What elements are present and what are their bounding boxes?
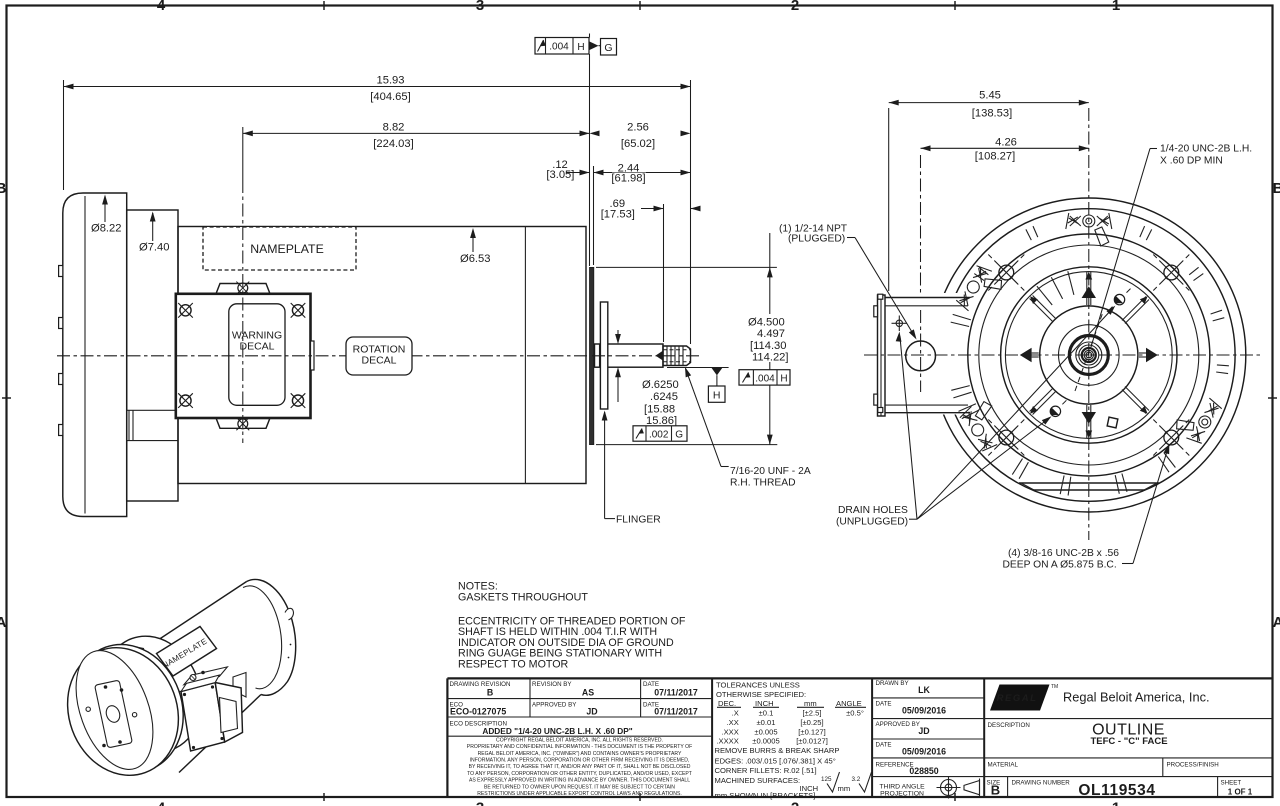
dia .6250/.6245 [15.88/15.86] text and FCF runout .002 G	[633, 379, 687, 441]
svg-text:.6245: .6245	[650, 391, 678, 403]
fan cover outer circles	[932, 198, 1246, 512]
svg-text:OL119534: OL119534	[1078, 782, 1155, 799]
svg-text:GASKETS THROUGHOUT: GASKETS THROUGHOUT	[458, 591, 588, 603]
direction triangles N S E W	[1020, 286, 1158, 424]
svg-text:B: B	[0, 180, 7, 197]
svg-text:mm SHOWN IN [BRACKETS]: mm SHOWN IN [BRACKETS]	[715, 791, 816, 800]
svg-text:ADDED "1/4-20 UNC-2B L.H. X .6: ADDED "1/4-20 UNC-2B L.H. X .60 DP"	[482, 726, 632, 736]
bottom chord flats	[1019, 483, 1159, 490]
dimension 8.82 [224.03]	[243, 121, 590, 150]
svg-text:PROCESS/FINISH: PROCESS/FINISH	[1167, 762, 1219, 769]
svg-text:1/4-20 UNC-2B L.H.: 1/4-20 UNC-2B L.H.	[1160, 144, 1252, 155]
fan guard spokes	[1030, 271, 1149, 438]
svg-text:3: 3	[476, 800, 484, 806]
svg-text:MACHINED SURFACES:: MACHINED SURFACES:	[715, 776, 801, 785]
svg-text:OTHERWISE SPECIFIED:: OTHERWISE SPECIFIED:	[716, 690, 806, 699]
svg-text:X .60 DP MIN: X .60 DP MIN	[1160, 155, 1223, 166]
svg-text:Ø6.53: Ø6.53	[460, 253, 490, 265]
1/4-20 tap leader and label	[1091, 144, 1252, 347]
svg-text:FLINGER: FLINGER	[616, 514, 661, 525]
svg-text:1: 1	[1112, 0, 1120, 14]
svg-text:mm: mm	[804, 699, 817, 708]
svg-text:APPROVED BY: APPROVED BY	[876, 721, 920, 728]
svg-text:±0.01: ±0.01	[757, 718, 776, 727]
mounting tap holes (4) 3/8-16	[988, 255, 1024, 291]
svg-text:[±0.25]: [±0.25]	[800, 718, 823, 727]
dia 6.53 label	[460, 228, 490, 265]
svg-text:(4) 3/8-16 UNC-2B x .56: (4) 3/8-16 UNC-2B x .56	[1008, 548, 1119, 559]
svg-text:Ø.6250: Ø.6250	[642, 379, 679, 391]
short ribs upper-left	[1068, 271, 1074, 295]
svg-text:REGAL BELOIT AMERICA, INC. ("O: REGAL BELOIT AMERICA, INC. ("OWNER") AND…	[478, 751, 682, 757]
svg-text:DRAWN BY: DRAWN BY	[876, 680, 909, 687]
conduit box (side view)	[57, 180, 592, 443]
svg-text:BE RETURNED TO OWNER UPON REQU: BE RETURNED TO OWNER UPON REQUEST. IT MA…	[484, 784, 675, 790]
hub plate circle	[1059, 325, 1120, 386]
svg-text:[108.27]: [108.27]	[975, 151, 1015, 163]
isometric nameplate decal	[157, 627, 217, 677]
svg-text:4: 4	[157, 0, 166, 14]
rim vent slots	[951, 226, 1229, 495]
flange mounting nubs	[59, 266, 63, 436]
svg-text:BY RECEIVING IT, TO AGREE THAT: BY RECEIVING IT, TO AGREE THAT IT, AND/O…	[469, 764, 691, 770]
dia 4.500/4.497 dimension line	[747, 233, 797, 445]
C-face pilot plate	[590, 267, 594, 444]
svg-text:114.22]: 114.22]	[752, 351, 789, 363]
isometric mid step ellipse	[87, 622, 218, 766]
svg-text:7/16-20 UNF - 2A: 7/16-20 UNF - 2A	[730, 466, 811, 477]
spoke tip wedges	[1030, 272, 1148, 438]
3/8-16 leader and label	[1002, 443, 1172, 571]
svg-text:A: A	[1273, 614, 1280, 631]
svg-text:.XX: .XX	[727, 718, 739, 727]
extension lines	[64, 34, 691, 345]
svg-text:.XXX: .XXX	[721, 728, 738, 737]
svg-text:RESPECT TO MOTOR: RESPECT TO MOTOR	[458, 659, 569, 671]
svg-text:4.26: 4.26	[995, 137, 1017, 149]
hub circles	[1069, 336, 1108, 375]
svg-text:DATE: DATE	[876, 701, 892, 708]
svg-text:[61.98]: [61.98]	[611, 172, 645, 184]
svg-text:[15.88: [15.88	[644, 404, 675, 416]
svg-text:G: G	[604, 42, 612, 54]
svg-text:RESTRICTIONS UNDER APPLICABLE: RESTRICTIONS UNDER APPLICABLE EXPORT CON…	[477, 791, 682, 797]
svg-text:DESCRIPTION: DESCRIPTION	[988, 722, 1030, 729]
svg-text:Ø8.22: Ø8.22	[91, 223, 121, 235]
tolerance block text	[715, 681, 864, 801]
svg-text:H: H	[713, 390, 721, 402]
dimension 5.45 [138.53]	[889, 90, 1089, 291]
svg-text:AS EXPRESSLY APPROVED IN WRITI: AS EXPRESSLY APPROVED IN WRITING IN ADVA…	[469, 778, 690, 784]
svg-text:DATE: DATE	[876, 742, 892, 749]
svg-text:A: A	[0, 614, 7, 631]
shaft threaded end 7/16-20	[656, 346, 691, 366]
svg-text:.004: .004	[549, 42, 569, 53]
svg-text:B: B	[487, 688, 493, 698]
svg-text:(PLUGGED): (PLUGGED)	[788, 234, 845, 245]
conduit box front view	[864, 108, 1263, 540]
svg-text:[138.53]: [138.53]	[972, 107, 1012, 119]
svg-text:REVISION BY: REVISION BY	[532, 681, 572, 688]
mid section (dia 7.40)	[127, 210, 178, 501]
cover clamp details	[955, 213, 1223, 453]
svg-text:±0.1: ±0.1	[759, 709, 774, 718]
dimension 4.26 [108.27]	[921, 137, 1089, 309]
isometric flange rear rim ellipse	[55, 629, 201, 788]
dia .6250 dimension arrows	[615, 330, 621, 402]
svg-text:DEC.: DEC.	[718, 699, 736, 708]
svg-text:COPYRIGHT REGAL BELOIT AMERICA: COPYRIGHT REGAL BELOIT AMERICA, INC. ALL…	[496, 737, 663, 743]
svg-text:1 OF 1: 1 OF 1	[1228, 788, 1253, 797]
svg-text:[114.30: [114.30	[750, 340, 787, 352]
svg-text:2.56: 2.56	[627, 121, 649, 133]
svg-text:THIRD ANGLE: THIRD ANGLE	[879, 783, 925, 790]
left section grid	[447, 698, 712, 700]
svg-text:REGAL: REGAL	[997, 693, 1038, 704]
svg-text:4.497: 4.497	[757, 328, 785, 340]
right section labels	[876, 680, 1242, 786]
svg-text:TEFC - "C" FACE: TEFC - "C" FACE	[1090, 736, 1167, 747]
svg-text:[±0.127]: [±0.127]	[798, 728, 825, 737]
svg-text:07/11/2017: 07/11/2017	[654, 688, 698, 698]
conduit box (front view) white mask	[876, 293, 963, 415]
isometric flange face ellipse	[61, 640, 167, 780]
svg-text:APPROVED BY: APPROVED BY	[532, 702, 576, 709]
svg-text:[3.05]: [3.05]	[546, 169, 574, 181]
svg-text:±0.005: ±0.005	[754, 728, 777, 737]
isometric conduit box neck	[172, 667, 227, 692]
svg-text:DECAL: DECAL	[361, 355, 396, 367]
svg-text:ECO-0127075: ECO-0127075	[450, 707, 506, 717]
title block outer lines	[447, 677, 1271, 679]
svg-text:028850: 028850	[909, 766, 938, 776]
svg-text:JD: JD	[918, 726, 929, 736]
dimension .69 [17.53]	[601, 198, 701, 220]
svg-text:PROJECTION: PROJECTION	[880, 791, 924, 798]
feature control frame runout .004 H with datum G at top	[535, 38, 617, 56]
motor body (dia 6.53)	[178, 227, 586, 484]
dimension 2.56 [65.02]	[590, 121, 691, 149]
svg-text:±0.5°: ±0.5°	[846, 709, 864, 718]
shaft	[595, 344, 664, 367]
svg-text:[404.65]: [404.65]	[370, 91, 410, 103]
isometric rear shaft nub	[285, 608, 293, 658]
Regal logo	[990, 684, 1210, 711]
svg-text:07/11/2017: 07/11/2017	[654, 707, 698, 717]
svg-text:[±0.0127]: [±0.0127]	[796, 737, 828, 746]
svg-text:ANGLE: ANGLE	[836, 699, 862, 708]
NPT hole target mark	[896, 320, 902, 326]
svg-text:MATERIAL: MATERIAL	[988, 762, 1019, 769]
dia 8.22 label	[91, 195, 121, 235]
svg-text:PROPRIETARY AND CONFIDENTIAL I: PROPRIETARY AND CONFIDENTIAL INFORMATION…	[467, 744, 692, 750]
shroud inner circles	[968, 234, 1210, 476]
pilot extension lines	[596, 266, 777, 268]
svg-text:DRAWING REVISION: DRAWING REVISION	[450, 681, 511, 688]
dimension 2.44 [61.98]	[594, 162, 691, 184]
tap hidden thread dashed line	[1075, 312, 1103, 391]
svg-text:4: 4	[157, 800, 166, 806]
left section text	[450, 681, 660, 728]
svg-text:Regal Beloit America, Inc.: Regal Beloit America, Inc.	[1063, 690, 1210, 705]
svg-text:(UNPLUGGED): (UNPLUGGED)	[836, 517, 908, 528]
drain hole upper	[1109, 289, 1131, 311]
svg-text:±0.0005: ±0.0005	[752, 737, 779, 746]
svg-text:TM: TM	[1051, 684, 1058, 690]
motor flange (bell housing)	[63, 193, 127, 517]
svg-text:125: 125	[821, 776, 832, 783]
svg-text:TO ANY PERSON, CORPORATION OR: TO ANY PERSON, CORPORATION OR OTHER ENTI…	[467, 771, 692, 777]
shaft bottom extension for datum H	[667, 367, 729, 369]
isometric conduit box	[181, 675, 243, 751]
svg-text:[224.03]: [224.03]	[373, 138, 413, 150]
drain holes leaders and label	[836, 304, 1117, 528]
third angle projection symbol	[937, 777, 980, 799]
svg-text:2: 2	[791, 0, 799, 14]
drain hole lower	[1044, 400, 1066, 422]
svg-text:8.82: 8.82	[383, 121, 405, 133]
svg-text:15.93: 15.93	[377, 75, 405, 87]
svg-text:TOLERANCES UNLESS: TOLERANCES UNLESS	[716, 681, 800, 690]
svg-text:5.45: 5.45	[979, 90, 1001, 102]
small square latch detail	[1107, 417, 1118, 428]
svg-text:2: 2	[791, 800, 799, 806]
svg-text:DEEP ON A Ø5.875 B.C.: DEEP ON A Ø5.875 B.C.	[1002, 560, 1116, 571]
isometric flange front ellipse	[50, 632, 196, 791]
svg-text:Ø4.500: Ø4.500	[748, 317, 785, 329]
svg-text:NAMEPLATE: NAMEPLATE	[250, 242, 324, 256]
svg-text:mm: mm	[838, 784, 851, 793]
svg-text:3.2: 3.2	[852, 776, 861, 783]
svg-text:INCH: INCH	[755, 699, 774, 708]
svg-text:JD: JD	[586, 707, 597, 717]
rotation decal	[346, 337, 412, 375]
svg-text:.002: .002	[649, 429, 669, 440]
FCF runout .004 H near shaft	[739, 370, 790, 385]
svg-text:B: B	[1273, 180, 1280, 197]
svg-text:CORNER FILLETS: R.02 [.51]: CORNER FILLETS: R.02 [.51]	[715, 766, 817, 775]
dimension .12 [3.05]	[546, 159, 589, 181]
isometric face plate	[86, 680, 137, 748]
dia 7.40 label	[139, 212, 169, 254]
svg-text:REFERENCE: REFERENCE	[876, 762, 914, 769]
svg-text:DRAWING NUMBER: DRAWING NUMBER	[1012, 780, 1071, 787]
svg-text:EDGES: .003/.015 [.076/.381]: EDGES: .003/.015 [.076/.381] X 45°	[715, 756, 836, 765]
svg-text:05/09/2016: 05/09/2016	[902, 706, 946, 716]
datum H symbol	[708, 368, 725, 402]
svg-text:.XXXX: .XXXX	[716, 737, 738, 746]
flinger	[600, 302, 607, 409]
isometric box bracket flap	[233, 673, 246, 698]
right section grid	[872, 697, 984, 699]
svg-text:R.H. THREAD: R.H. THREAD	[730, 478, 796, 489]
svg-text:05/09/2016: 05/09/2016	[902, 747, 946, 757]
dimension 15.93 [404.65]	[64, 74, 691, 103]
svg-text:G: G	[675, 430, 683, 441]
svg-text:.X: .X	[732, 709, 739, 718]
svg-text:[17.53]: [17.53]	[601, 209, 635, 221]
svg-text:H: H	[577, 42, 584, 53]
7/16-20 UNF leader and text	[682, 366, 811, 488]
svg-text:.004: .004	[755, 373, 775, 384]
svg-text:DRAIN HOLES: DRAIN HOLES	[838, 505, 908, 516]
svg-text:H: H	[780, 374, 787, 385]
flinger leader	[602, 411, 661, 526]
svg-text:1: 1	[1112, 800, 1120, 806]
svg-text:B: B	[991, 783, 1000, 798]
svg-text:SHEET: SHEET	[1221, 780, 1242, 787]
inner baffle circle	[1040, 306, 1138, 404]
svg-text:AS: AS	[582, 688, 594, 698]
isometric motor body cylinder	[152, 579, 296, 772]
NPT leader and label	[779, 223, 919, 341]
svg-text:INFORMATION. ANY PERSON, CORPO: INFORMATION. ANY PERSON, CORPORATION OR …	[470, 758, 690, 764]
fan guard opening double circle	[1001, 267, 1177, 443]
nameplate dashed rectangle	[203, 227, 356, 270]
svg-text:REMOVE BURRS & BREAK SHARP: REMOVE BURRS & BREAK SHARP	[715, 746, 840, 755]
svg-text:3: 3	[476, 0, 484, 14]
svg-text:DECAL: DECAL	[239, 341, 274, 353]
svg-text:[±2.5]: [±2.5]	[803, 709, 822, 718]
isometric top notch	[132, 647, 145, 655]
svg-text:LK: LK	[918, 685, 930, 695]
svg-text:Ø7.40: Ø7.40	[139, 242, 169, 254]
svg-text:[65.02]: [65.02]	[621, 138, 655, 150]
